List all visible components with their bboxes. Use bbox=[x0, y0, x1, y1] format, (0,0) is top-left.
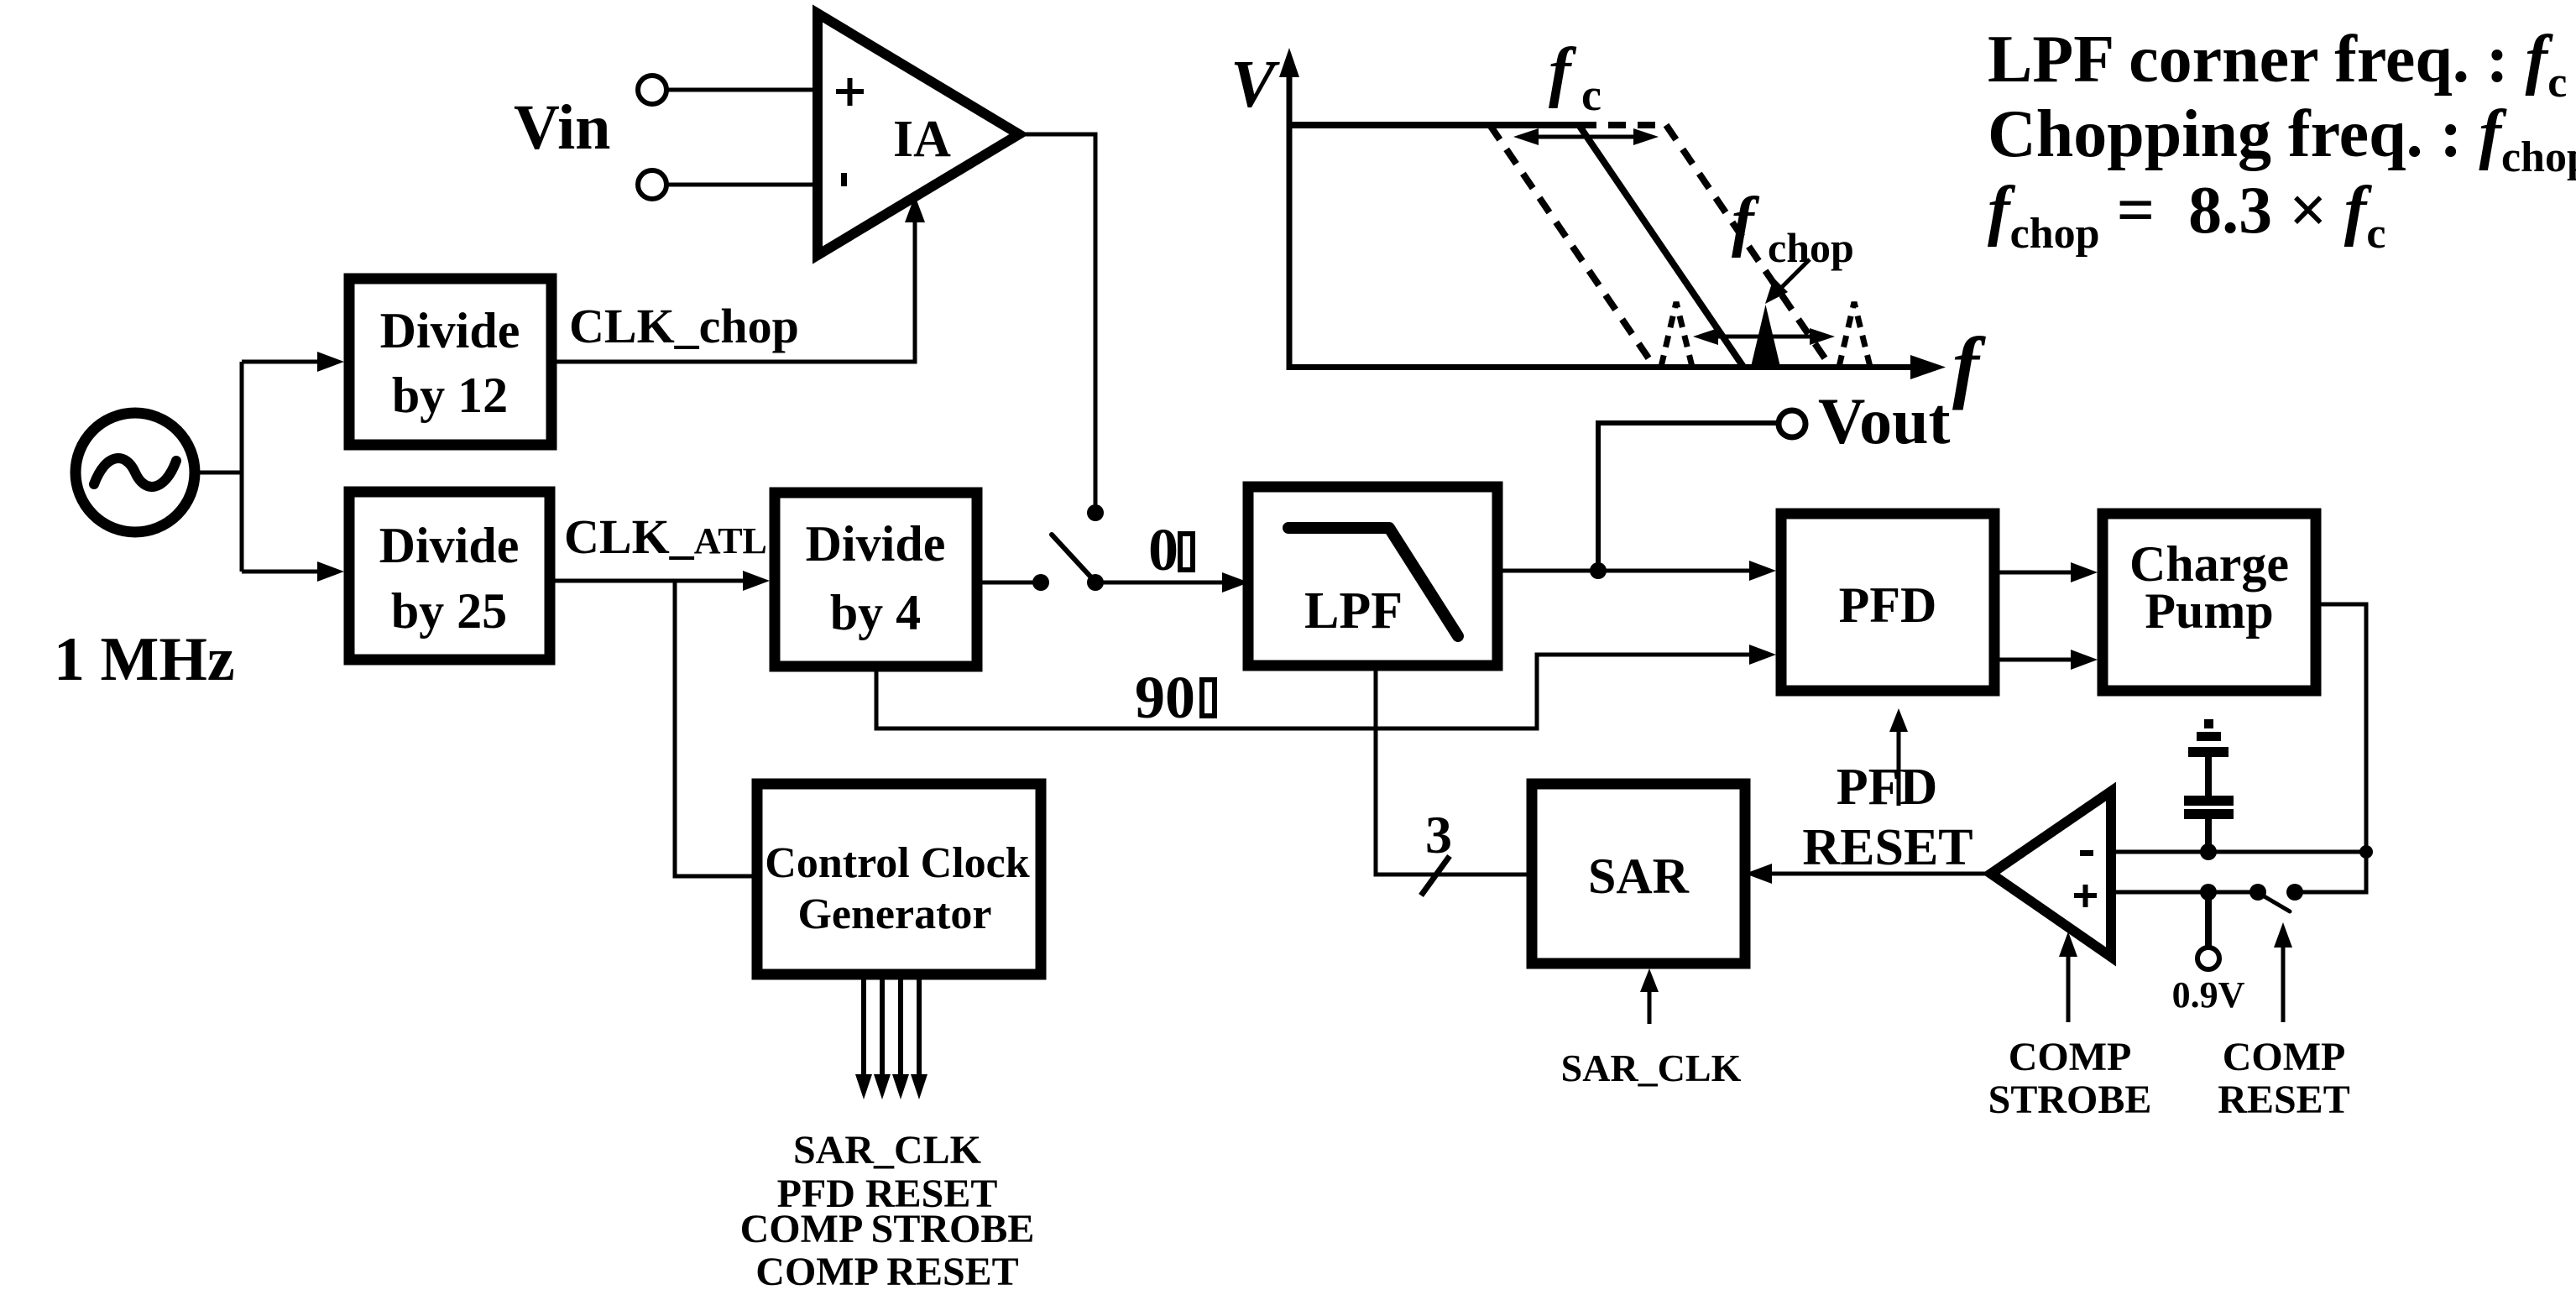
wire comparator plus input bbox=[2111, 890, 2258, 895]
wire CLK_ATL to Control Clock Generator bbox=[675, 581, 752, 876]
wire LPF output to PFD bbox=[1502, 569, 1754, 573]
wire Charge Pump output down bbox=[2295, 604, 2366, 892]
spike dashed right bbox=[1839, 302, 1870, 367]
svg-text:SAR_CLK: SAR_CLK bbox=[793, 1128, 981, 1172]
svg-text:0.9V: 0.9V bbox=[2172, 974, 2245, 1015]
svg-text:c: c bbox=[1581, 70, 1602, 120]
block Divide by 25 bbox=[349, 492, 550, 660]
arrow fchop range bbox=[1701, 335, 1827, 339]
terminal Vout bbox=[1779, 410, 1805, 437]
node switch input dot bbox=[1032, 574, 1049, 591]
curve dashed flat extension bbox=[1579, 122, 1666, 128]
arrow fchop pointer bbox=[1777, 259, 1810, 292]
switch S2 lever bbox=[2261, 895, 2290, 911]
capacitor C1 bbox=[2184, 757, 2234, 852]
op-amp IA (instrumentation amplifier) bbox=[818, 13, 1019, 255]
wire Vin+ to IA bbox=[667, 88, 818, 92]
svg-text:Vin: Vin bbox=[514, 92, 610, 163]
svg-text:COMP: COMP bbox=[2223, 1035, 2346, 1079]
svg-text:STROBE: STROBE bbox=[1988, 1078, 2152, 1122]
switch S1 lever bbox=[1052, 535, 1092, 578]
block LPF bbox=[1248, 487, 1497, 666]
block Control Clock Generator bbox=[757, 784, 1041, 974]
wire splitter vertical bbox=[240, 362, 244, 572]
wire comparator output to SAR bbox=[1767, 872, 1991, 876]
svg-text:by 4: by 4 bbox=[830, 585, 921, 640]
comparator U2 bbox=[1991, 791, 2111, 957]
switch S2 left dot bbox=[2249, 884, 2266, 901]
wire PFD RESET arrow into PFD bbox=[1897, 718, 1901, 806]
block PFD bbox=[1781, 514, 1994, 691]
svg-text:1 MHz: 1 MHz bbox=[54, 625, 235, 694]
svg-text:Chopping freq. : fchop: Chopping freq. : fchop bbox=[1988, 97, 2576, 181]
svg-text:Generator: Generator bbox=[797, 890, 991, 938]
curve dashed right diagonal bbox=[1666, 125, 1831, 367]
svg-text:RESET: RESET bbox=[2218, 1078, 2349, 1122]
block Divide by 12 bbox=[349, 279, 551, 445]
svg-text:chop: chop bbox=[1768, 224, 1854, 271]
wire to Divide by 12 bbox=[242, 360, 322, 364]
svg-text:CLK_chop: CLK_chop bbox=[569, 299, 799, 353]
curve solid LPF response bbox=[1289, 125, 1743, 367]
svg-text:LPF: LPF bbox=[1304, 582, 1403, 640]
node 0.9V tap dot bbox=[2200, 884, 2217, 901]
svg-text:Divide: Divide bbox=[379, 518, 520, 573]
node Vout tap dot bbox=[1590, 562, 1607, 579]
terminal Vin- bbox=[638, 170, 666, 199]
svg-text:SAR_CLK: SAR_CLK bbox=[1561, 1047, 1742, 1089]
arrow fc range bbox=[1521, 135, 1651, 139]
svg-text:RESET: RESET bbox=[1802, 819, 1972, 876]
switch S2 right dot bbox=[2286, 884, 2303, 901]
spike solid fchop bbox=[1751, 305, 1780, 367]
wire to Divide by 25 bbox=[242, 570, 322, 574]
wire CCG output arrow 3 bbox=[898, 979, 903, 1078]
wire switch to LPF bbox=[1095, 581, 1227, 585]
wire source to splitter bbox=[195, 471, 242, 475]
wire CCG output arrow 2 bbox=[880, 979, 885, 1078]
svg-text:IA: IA bbox=[893, 111, 951, 168]
node CP junction dot bbox=[2359, 845, 2373, 859]
svg-text:Divide: Divide bbox=[380, 303, 520, 358]
wire Vout tap bbox=[1598, 423, 1776, 571]
svg-text:by 25: by 25 bbox=[391, 583, 507, 639]
svg-text:3: 3 bbox=[1425, 805, 1452, 864]
block SAR bbox=[1532, 784, 1745, 963]
wire IA output down to switch bbox=[1019, 134, 1095, 505]
svg-text:COMP RESET: COMP RESET bbox=[755, 1250, 1018, 1294]
wire comparator minus input bbox=[2111, 850, 2366, 854]
arrow COMP STROBE bbox=[2067, 953, 2071, 1022]
wire LPF bottom to SAR bus bbox=[1376, 671, 1527, 874]
wire Divide by 4 output to switch bbox=[982, 581, 1041, 585]
net CLK_chop wire bbox=[556, 217, 915, 362]
svg-text:PFD: PFD bbox=[1837, 759, 1938, 816]
node switch pivot dot bbox=[1087, 574, 1104, 591]
spike dashed left bbox=[1661, 302, 1692, 367]
svg-text:Pump: Pump bbox=[2145, 583, 2273, 639]
svg-text:0: 0 bbox=[1148, 516, 1178, 583]
svg-text:SAR: SAR bbox=[1588, 848, 1690, 904]
svg-text:PFD: PFD bbox=[1839, 577, 1937, 633]
wire CCG output arrow 1 bbox=[861, 979, 866, 1078]
svg-text:90: 90 bbox=[1135, 664, 1195, 731]
wire PFD to Charge Pump upper bbox=[1999, 571, 2076, 575]
svg-text:by 12: by 12 bbox=[392, 368, 508, 423]
svg-text:COMP: COMP bbox=[2009, 1035, 2132, 1079]
svg-text:Divide: Divide bbox=[806, 516, 946, 572]
node cap junction dot bbox=[2200, 843, 2217, 860]
graph f axis bbox=[1287, 364, 1917, 370]
svg-text:V: V bbox=[1231, 48, 1280, 122]
terminal Vin+ bbox=[638, 76, 666, 104]
wire CCG output arrow 4 bbox=[917, 979, 922, 1078]
curve dashed left diagonal bbox=[1490, 125, 1654, 367]
supply mark above capacitor bbox=[2188, 719, 2229, 757]
svg-text:COMP STROBE: COMP STROBE bbox=[740, 1207, 1035, 1251]
arrow COMP RESET bbox=[2281, 944, 2286, 1022]
svg-text:Control Clock: Control Clock bbox=[765, 839, 1029, 887]
net CLK_ATL wire bbox=[555, 579, 748, 583]
graph V axis bbox=[1287, 71, 1293, 370]
wire PFD to Charge Pump lower bbox=[1999, 658, 2076, 662]
source V1 (1 MHz sine source) bbox=[76, 413, 195, 532]
bus slash 3 bbox=[1421, 856, 1450, 895]
node IA output dot bbox=[1087, 504, 1104, 521]
block Charge Pump bbox=[2103, 514, 2316, 691]
wire Vin- to IA bbox=[667, 183, 818, 187]
wire Divide by 4 to 90deg line to PFD bbox=[876, 655, 1754, 728]
block Divide by 4 bbox=[775, 493, 977, 666]
svg-text:LPF corner freq. : fc: LPF corner freq. : fc bbox=[1988, 23, 2567, 107]
svg-text:Vout: Vout bbox=[1818, 384, 1951, 457]
wire SAR_CLK arrow into SAR bbox=[1648, 979, 1652, 1024]
terminal 0.9V bbox=[2205, 892, 2212, 948]
